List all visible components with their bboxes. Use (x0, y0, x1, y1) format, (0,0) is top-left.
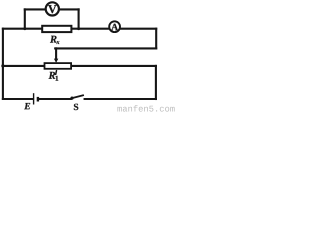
wire bottom row right segment (85, 98, 156, 100)
wire row2 left segment (3, 28, 42, 30)
switch S pivot dot (70, 97, 73, 100)
wire row A wiper feed (55, 47, 156, 49)
rheostat R1p body (45, 63, 72, 69)
battery E short plate (37, 97, 39, 102)
wire row2 right segment (120, 28, 156, 30)
switch S lever (72, 95, 83, 98)
wire wiper vertical (55, 48, 57, 59)
label Rx (50, 36, 59, 44)
wire row2 middle segment (71, 28, 108, 30)
label S (74, 104, 78, 110)
rheostat wiper arrowhead (54, 59, 58, 63)
wire row B right segment (71, 65, 156, 67)
ammeter letter A (111, 24, 118, 30)
ammeter U2 circle (109, 21, 120, 32)
resistor Rx body (42, 26, 71, 32)
wire voltmeter branch top left (25, 8, 45, 10)
wire bottom row middle segment (39, 98, 71, 100)
battery E long plate (33, 93, 35, 104)
junction node row2-voltmeter right (77, 27, 80, 30)
wire right vertical upper (155, 29, 157, 49)
wire voltmeter branch top right (60, 8, 79, 10)
wire voltmeter branch left vertical (24, 9, 26, 28)
voltmeter letter V (48, 5, 56, 13)
wire bottom row left segment (3, 98, 33, 100)
voltmeter U1 circle (46, 2, 59, 15)
label E (24, 103, 30, 109)
wire right vertical lower (155, 66, 157, 99)
label R1prime (49, 72, 59, 81)
wire left vertical (2, 29, 4, 99)
watermark manfen5.com (117, 105, 174, 111)
wire row B left segment (3, 65, 45, 67)
junction node left vertical-row B (1, 64, 4, 67)
wire voltmeter branch right vertical (78, 9, 80, 28)
label R1prime prime mark (55, 71, 58, 75)
junction node row2-voltmeter left (23, 27, 26, 30)
